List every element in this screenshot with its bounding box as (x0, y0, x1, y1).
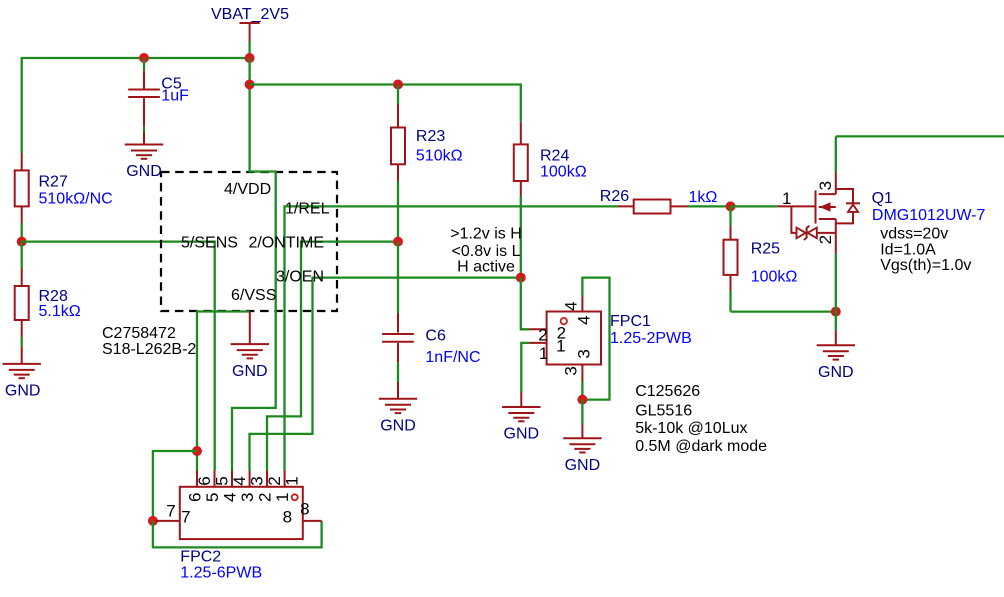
wire 5/SENS net (22, 242, 215, 471)
FPC2 pin 6 stub (196, 471, 198, 487)
ground below Q1 source (817, 312, 855, 381)
svg-text:510kΩ: 510kΩ (416, 148, 463, 165)
node junction at R23 top (393, 80, 403, 90)
svg-text:1nF/NC: 1nF/NC (425, 349, 480, 366)
svg-text:1/REL: 1/REL (285, 201, 330, 218)
resistor R24 (514, 122, 587, 277)
svg-text:4/VDD: 4/VDD (224, 181, 271, 198)
svg-text:4: 4 (221, 493, 240, 502)
wire drain rail to right edge (836, 135, 1004, 137)
svg-text:5: 5 (203, 493, 222, 502)
svg-text:GND: GND (232, 363, 268, 380)
wire gate to Q1 (731, 205, 778, 207)
svg-text:100kΩ: 100kΩ (540, 163, 587, 180)
svg-text:7: 7 (181, 507, 190, 526)
wire 6/VSS net to GND and FPC2 pins 6/7/8 (197, 312, 250, 471)
node junction VSS branch (192, 446, 202, 456)
FPC2 pin 1 stub (284, 471, 286, 487)
FPC2 pin 5 stub (214, 471, 216, 487)
FPC2 pin 4 stub (231, 471, 233, 487)
svg-text:3: 3 (238, 493, 257, 502)
svg-text:1: 1 (539, 344, 548, 363)
FPC1 pin 1 marker circle (561, 318, 567, 324)
node junction ONTIME/R23/C6 (393, 237, 403, 247)
svg-text:R26: R26 (600, 188, 629, 205)
svg-text:R23: R23 (416, 128, 445, 145)
svg-text:C2758472: C2758472 (102, 325, 176, 342)
svg-text:2: 2 (265, 476, 284, 485)
svg-text:R24: R24 (540, 147, 569, 164)
svg-text:GND: GND (380, 418, 416, 435)
svg-text:5.1kΩ: 5.1kΩ (39, 303, 81, 320)
svg-text:3: 3 (248, 476, 267, 485)
svg-text:>1.2v is H: >1.2v is H (450, 225, 522, 242)
svg-text:1: 1 (283, 476, 302, 485)
svg-text:8: 8 (300, 500, 309, 519)
svg-text:Vgs(th)=1.0v: Vgs(th)=1.0v (880, 257, 971, 274)
photoresistor note (635, 383, 767, 455)
svg-text:GND: GND (565, 457, 601, 474)
FPC2 pin 2 stub (266, 471, 268, 487)
resistor R28 (15, 242, 81, 364)
wire R25 bottom to source node (731, 310, 836, 312)
resistor R23 (391, 85, 463, 242)
svg-text:3: 3 (816, 181, 835, 190)
svg-text:1: 1 (273, 493, 292, 502)
svg-text:FPC1: FPC1 (610, 313, 651, 330)
svg-text:VBAT_2V5: VBAT_2V5 (211, 6, 289, 23)
svg-text:3: 3 (562, 366, 581, 375)
resistor R26 (600, 188, 731, 214)
node junction on top rail at C5 (139, 53, 149, 63)
connector FPC2 (155, 471, 321, 582)
svg-text:6/VSS: 6/VSS (231, 287, 276, 304)
svg-text:C125626: C125626 (635, 383, 700, 400)
transistor Q1 (777, 136, 985, 311)
node junction R27/R28/SENS (17, 237, 27, 247)
wire 2/ONTIME net to R23 node and down to FPC2 pin2 (267, 242, 398, 471)
node junction on top rail at VBAT (245, 53, 255, 63)
svg-text:100kΩ: 100kΩ (751, 269, 798, 286)
ground below FPC1 pin1 (502, 407, 540, 443)
svg-text:3/OEN: 3/OEN (276, 269, 324, 286)
svg-text:0.5M @dark mode: 0.5M @dark mode (635, 438, 767, 455)
ground below C5 (125, 145, 163, 181)
wire 4/VDD net from VBAT down into module and to FPC2 pin4 (232, 58, 276, 471)
svg-text:R27: R27 (39, 174, 68, 191)
ground below R28 (3, 364, 41, 400)
FPC2 pin 3 stub (249, 471, 251, 487)
svg-text:Q1: Q1 (872, 190, 893, 207)
svg-text:1: 1 (782, 189, 791, 208)
svg-text:GND: GND (504, 426, 540, 443)
capacitor C6 (382, 242, 480, 399)
svg-text:GND: GND (818, 364, 854, 381)
capacitor C5 (128, 58, 189, 145)
FPC2 pin 8 stub (303, 520, 322, 522)
svg-text:1uF: 1uF (161, 87, 189, 104)
ground below C6 (379, 399, 417, 435)
resistor R25 (724, 206, 798, 311)
svg-text:GND: GND (126, 163, 162, 180)
wire 3/OEN net to R24 node and down to FPC2 pin3 (250, 278, 521, 471)
node junction OEN/R24/FPC1 (516, 273, 526, 283)
wire VBAT rail to R23 and R24 (250, 85, 521, 123)
svg-text:4: 4 (562, 301, 581, 310)
svg-text:DMG1012UW-7: DMG1012UW-7 (872, 207, 986, 224)
FPC2 pin 1 marker circle (292, 494, 298, 500)
svg-text:5: 5 (213, 476, 232, 485)
svg-text:2/ONTIME: 2/ONTIME (248, 235, 324, 252)
svg-text:S18-L262B-2: S18-L262B-2 (102, 341, 196, 358)
svg-text:1.25-2PWB: 1.25-2PWB (610, 330, 692, 347)
svg-text:4: 4 (575, 315, 594, 324)
FPC2 pin 7 stub (155, 520, 180, 522)
wire VSS branch to FPC2 pin7 (153, 451, 197, 521)
svg-text:3: 3 (574, 349, 593, 358)
node junction VBAT branch to R23/R24 rail (245, 80, 255, 90)
connector FPC1 (521, 278, 692, 407)
wire FPC2 pin7 to pin8 loop (153, 521, 322, 548)
ground below FPC1 pin3 (563, 400, 601, 474)
wire 1/REL net horizontal to R26 and down to FPC2 pin1 (285, 206, 618, 470)
svg-text:1: 1 (556, 337, 565, 356)
wire top rail from left corner to VBAT stem (22, 58, 250, 153)
svg-text:GND: GND (5, 383, 41, 400)
svg-text:C6: C6 (425, 328, 446, 345)
ground at module VSS (231, 312, 269, 380)
svg-text:vdss=20v: vdss=20v (880, 225, 948, 242)
svg-text:510kΩ/NC: 510kΩ/NC (39, 191, 113, 208)
svg-text:8: 8 (283, 507, 292, 526)
sensor module U1 dashed outline (161, 172, 337, 311)
svg-text:7: 7 (166, 502, 175, 521)
svg-text:1kΩ: 1kΩ (689, 189, 718, 206)
resistor R27 (15, 153, 113, 242)
svg-text:1.25-6PWB: 1.25-6PWB (180, 565, 262, 582)
svg-text:GL5516: GL5516 (635, 403, 692, 420)
power flag VBAT_2V5 (211, 6, 289, 58)
svg-text:5/SENS: 5/SENS (181, 235, 238, 252)
comment threshold note (450, 225, 522, 275)
node junction source/R25/GND (831, 307, 841, 317)
svg-text:2: 2 (538, 326, 547, 345)
svg-text:H active: H active (457, 259, 515, 276)
svg-text:6: 6 (195, 476, 214, 485)
svg-text:R25: R25 (751, 241, 780, 258)
svg-text:2: 2 (816, 235, 835, 244)
svg-text:5k-10k @10Lux: 5k-10k @10Lux (635, 420, 747, 437)
node junction FPC1 pin3/GND loop (577, 395, 587, 405)
node junction gate/R25/R26 (726, 201, 736, 211)
svg-text:4: 4 (230, 476, 249, 485)
svg-text:FPC2: FPC2 (180, 549, 221, 566)
node junction at FPC2 pin7 (148, 516, 158, 526)
svg-text:6: 6 (186, 493, 205, 502)
svg-text:2: 2 (256, 493, 275, 502)
